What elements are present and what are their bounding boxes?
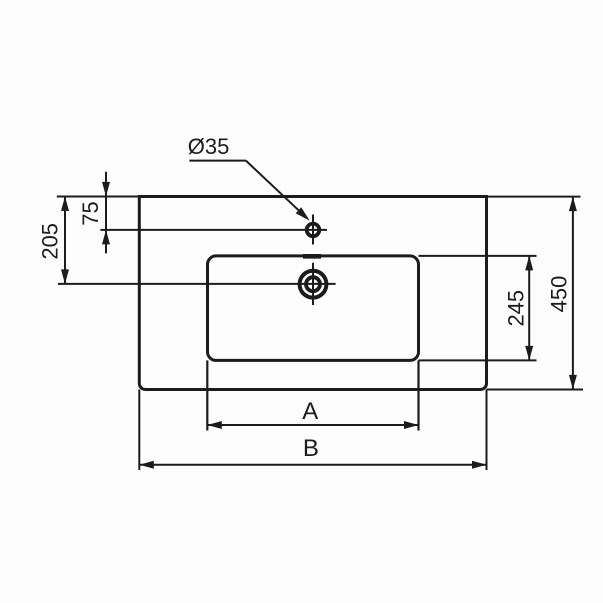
extension line basin left down (for B)	[138, 390, 140, 471]
faucet hole crosshair vertical	[312, 215, 314, 245]
extension line top edge right	[487, 196, 581, 198]
dimension 245 bottom arrow	[525, 346, 533, 361]
dimension 205 bottom arrow	[61, 269, 69, 284]
extension line basin right down (for B)	[486, 390, 488, 471]
extension line bowl top right	[419, 255, 537, 257]
dimension 450 top arrow	[569, 197, 577, 212]
drain hole crosshair horizontal + extension line for 205	[58, 283, 336, 285]
svg-text:75: 75	[78, 201, 103, 225]
svg-text:B: B	[303, 435, 319, 462]
dimension 245 line	[528, 256, 530, 361]
extension line bowl right down (for A)	[417, 360, 419, 430]
svg-text:Ø35: Ø35	[188, 134, 230, 159]
dimension B left arrow	[139, 461, 154, 469]
dimension 75 line (arrows outside)	[105, 172, 107, 254]
bowl outline (inner rounded rectangle)	[208, 256, 419, 361]
drain hole inner circle	[306, 277, 320, 291]
dimension 205 line	[64, 196, 66, 284]
dimension A right arrow	[404, 421, 419, 429]
extension line bowl bottom right	[419, 359, 537, 361]
basin outline (outer rounded rectangle, square top corners)	[139, 197, 486, 390]
dimension 450 line	[572, 197, 574, 390]
drain hole crosshair vertical	[312, 263, 314, 305]
dimension 450 bottom arrow	[569, 375, 577, 390]
dimension B right arrow	[472, 461, 487, 469]
dimension 245 top arrow	[525, 256, 533, 271]
extension line top edge left	[57, 196, 140, 198]
leader diagonal line	[246, 161, 307, 219]
leader arrowhead	[296, 207, 310, 221]
extension line bowl left down (for A)	[206, 360, 208, 430]
dimension 205 top arrow	[61, 196, 69, 211]
svg-text:A: A	[302, 398, 318, 425]
svg-text:245: 245	[503, 290, 528, 327]
svg-text:450: 450	[547, 276, 572, 313]
dimension B line	[139, 464, 486, 466]
drain hole outer circle	[300, 271, 327, 298]
extension line basin bottom right	[487, 389, 584, 391]
faucet hole crosshair horizontal + extension line for 75	[100, 229, 327, 231]
faucet hole circle	[307, 224, 320, 237]
dimension 75 top arrow	[102, 182, 110, 197]
leader shoulder under Ø35	[189, 160, 246, 162]
svg-text:205: 205	[38, 223, 63, 260]
bowl edge thick dash above drain	[303, 254, 321, 259]
dimension 75 bottom arrow	[102, 230, 110, 245]
dimension A line	[207, 424, 418, 426]
dimension A left arrow	[207, 421, 222, 429]
